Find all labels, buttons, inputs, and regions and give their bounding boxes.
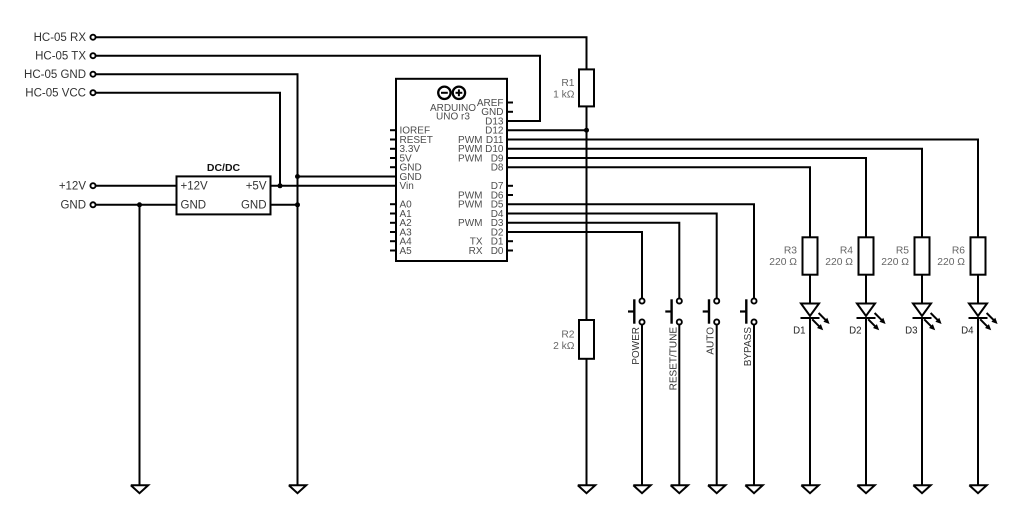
svg-text:RESET/TUNE: RESET/TUNE [668,327,679,391]
svg-text:D1: D1 [793,326,805,337]
svg-text:2 kΩ: 2 kΩ [553,341,575,352]
svg-text:D0: D0 [491,246,504,257]
svg-text:220 Ω: 220 Ω [769,257,797,268]
svg-text:RX: RX [469,246,483,257]
svg-text:PWM: PWM [458,200,482,211]
svg-text:PWM: PWM [458,153,482,164]
svg-text:1 kΩ: 1 kΩ [553,90,575,101]
svg-text:UNO r3: UNO r3 [436,112,470,123]
svg-text:R6: R6 [952,245,965,256]
svg-text:D3: D3 [905,326,917,337]
svg-text:220 Ω: 220 Ω [881,257,909,268]
svg-text:AUTO: AUTO [706,327,717,355]
svg-text:R2: R2 [561,330,574,341]
svg-text:+12V: +12V [181,181,209,193]
svg-text:GND: GND [181,200,207,212]
svg-text:R3: R3 [784,245,797,256]
svg-text:D2: D2 [849,326,861,337]
svg-text:220 Ω: 220 Ω [825,257,853,268]
svg-text:BYPASS: BYPASS [743,327,754,367]
svg-text:PWM: PWM [458,218,482,229]
svg-text:R1: R1 [561,78,574,89]
svg-text:R4: R4 [840,245,853,256]
svg-text:POWER: POWER [631,327,642,365]
svg-text:220 Ω: 220 Ω [937,257,965,268]
svg-text:A5: A5 [400,246,413,257]
svg-text:HC-05 VCC: HC-05 VCC [25,88,86,100]
svg-text:R5: R5 [896,245,909,256]
svg-text:Vin: Vin [400,181,414,192]
svg-text:GND: GND [60,200,86,212]
svg-text:+5V: +5V [246,181,267,193]
svg-text:HC-05 RX: HC-05 RX [34,32,87,44]
svg-text:HC-05 TX: HC-05 TX [35,51,86,63]
svg-text:D8: D8 [491,163,504,174]
svg-text:+12V: +12V [59,181,87,193]
svg-text:D4: D4 [961,326,974,337]
svg-text:GND: GND [241,200,267,212]
svg-text:DC/DC: DC/DC [207,162,241,174]
svg-text:HC-05 GND: HC-05 GND [24,69,86,81]
